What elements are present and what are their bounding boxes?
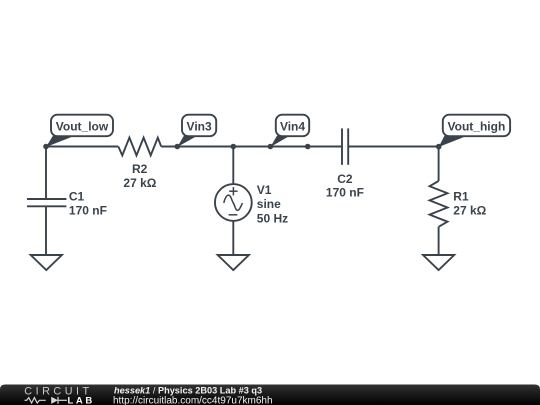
- svg-text:Vin3: Vin3: [187, 119, 212, 133]
- svg-text:R2: R2: [132, 162, 148, 176]
- svg-text:Vin4: Vin4: [280, 119, 305, 133]
- svg-text:http://circuitlab.com/cc4t97u7: http://circuitlab.com/cc4t97u7km6hh: [113, 396, 273, 405]
- svg-text:C2: C2: [337, 172, 353, 186]
- svg-text:Vout_high: Vout_high: [448, 119, 506, 133]
- svg-text:C1: C1: [69, 189, 85, 203]
- svg-text:50 Hz: 50 Hz: [257, 211, 288, 225]
- svg-text:27 kΩ: 27 kΩ: [123, 176, 156, 190]
- svg-text:R1: R1: [453, 189, 469, 203]
- svg-text:27 kΩ: 27 kΩ: [453, 203, 486, 217]
- svg-text:hessek1 / Physics 2B03 Lab #3: hessek1 / Physics 2B03 Lab #3 q3: [114, 386, 262, 396]
- svg-text:LAB: LAB: [68, 395, 95, 405]
- svg-text:sine: sine: [257, 197, 281, 211]
- svg-text:170 nF: 170 nF: [69, 203, 107, 217]
- svg-text:170 nF: 170 nF: [326, 185, 364, 199]
- svg-text:Vout_low: Vout_low: [56, 119, 109, 133]
- svg-text:V1: V1: [257, 183, 272, 197]
